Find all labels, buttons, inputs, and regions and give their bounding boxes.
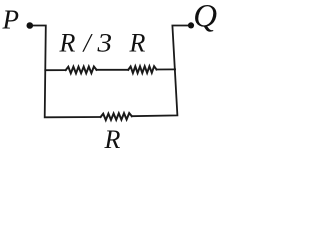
- svg-text:R: R: [59, 28, 76, 57]
- svg-text:P: P: [2, 5, 20, 35]
- svg-text:3: 3: [96, 28, 112, 57]
- svg-text:Q: Q: [193, 0, 217, 35]
- svg-text:R: R: [129, 28, 146, 57]
- svg-text:/: /: [82, 28, 94, 57]
- svg-text:R: R: [104, 125, 121, 154]
